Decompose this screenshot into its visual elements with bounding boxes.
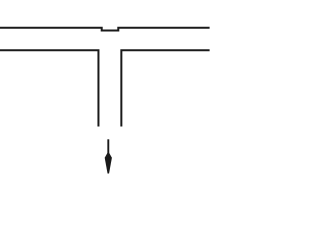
wire top wall with notch [0, 28, 210, 31]
wire left lower wall with corner down [0, 50, 98, 126]
wire right lower wall with corner down [121, 50, 209, 126]
arrow flow direction down [105, 139, 112, 173]
